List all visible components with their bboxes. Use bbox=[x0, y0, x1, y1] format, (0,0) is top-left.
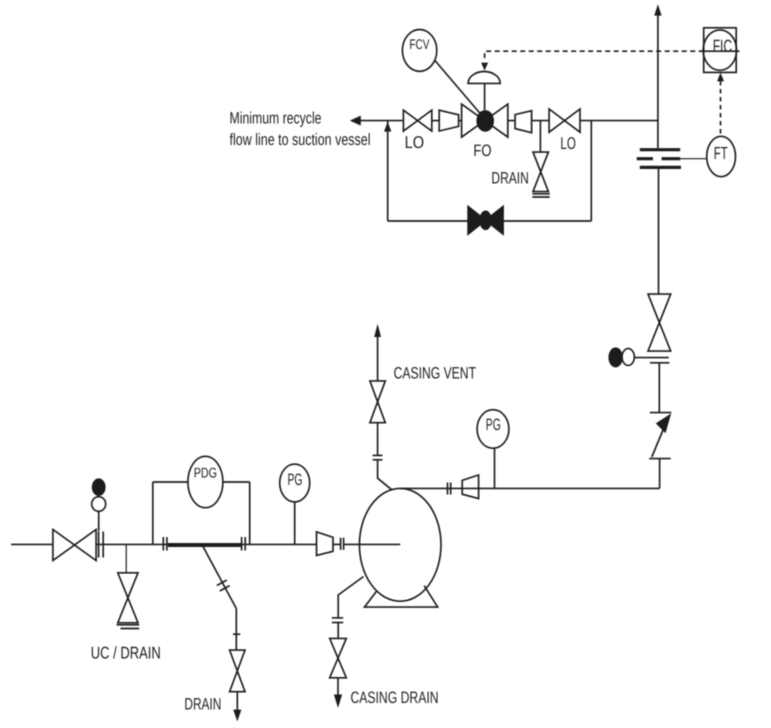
casing drain valve bbox=[330, 638, 347, 677]
valve LO left (gate) bbox=[403, 110, 431, 131]
gauge stem PG suction bbox=[294, 502, 296, 545]
reducer left of control valve bbox=[439, 110, 458, 131]
valve LO right (gate) bbox=[549, 109, 580, 132]
drain tail bbox=[236, 692, 238, 710]
bypass right riser bbox=[590, 121, 592, 221]
gauge stem PG discharge bbox=[494, 448, 496, 488]
casing vent valve bbox=[370, 381, 385, 423]
instrument balloon PDG bbox=[188, 456, 223, 507]
break slashes bbox=[217, 580, 227, 585]
blind flange lines under drain valve bbox=[532, 193, 549, 195]
reducer right of control valve bbox=[515, 111, 532, 133]
vertical gate valve on riser bbox=[648, 294, 671, 351]
leader line FCV to valve bbox=[435, 60, 484, 118]
riser segment bbox=[658, 363, 660, 413]
wire into pump bbox=[333, 543, 340, 545]
check valve top seat bbox=[650, 412, 672, 414]
check valve arrow head bbox=[656, 413, 671, 433]
orifice run thick segment bbox=[168, 543, 242, 547]
drain arrow bbox=[233, 710, 241, 722]
casing vent bend bbox=[378, 460, 392, 490]
orifice flange assembly bbox=[640, 148, 680, 151]
bypass up arrow bbox=[384, 122, 391, 132]
spectacle blind stem bbox=[98, 511, 100, 531]
control valve plug (filled ball) bbox=[476, 110, 494, 132]
svg-text:FT: FT bbox=[714, 143, 728, 163]
orifice run flange pairs bbox=[162, 537, 164, 551]
valve stem bbox=[484, 83, 486, 110]
instrument balloon FT bbox=[707, 136, 736, 176]
main suction line bbox=[11, 543, 53, 545]
spectacle blind filled circle bbox=[608, 347, 622, 367]
discharge line bbox=[401, 487, 660, 489]
drain branch line bbox=[539, 121, 541, 153]
spectacle blind open circle bbox=[92, 497, 106, 512]
riser upper segment bbox=[657, 15, 659, 148]
svg-text:FCV: FCV bbox=[409, 36, 430, 52]
small flange tick bbox=[233, 633, 240, 635]
wire orifice to FT bbox=[680, 158, 707, 160]
riser top arrow bbox=[654, 4, 661, 15]
svg-text:flow line to suction vessel: flow line to suction vessel bbox=[230, 131, 371, 149]
svg-text:LO: LO bbox=[405, 133, 425, 152]
riser below orifice bbox=[658, 169, 660, 294]
svg-text:CASING DRAIN: CASING DRAIN bbox=[351, 689, 439, 707]
wire recycle header line bbox=[358, 120, 403, 122]
casing drain tail bbox=[337, 678, 339, 695]
bypass globe valve normally closed (filled) bbox=[468, 206, 503, 234]
svg-text:DRAIN: DRAIN bbox=[184, 695, 221, 713]
svg-text:Minimum recycle: Minimum recycle bbox=[230, 110, 322, 128]
wire bbox=[508, 120, 515, 122]
drain drop bbox=[235, 609, 237, 651]
svg-text:PDG: PDG bbox=[194, 464, 217, 480]
svg-text:CASING VENT: CASING VENT bbox=[394, 364, 476, 382]
spectacle blind lines bbox=[635, 357, 669, 359]
casing drain flange pair bbox=[332, 617, 343, 619]
casing drain bend bbox=[338, 577, 363, 618]
instrument balloon PG discharge bbox=[477, 410, 509, 449]
discharge flange pair bbox=[447, 483, 449, 495]
dashed signal line FIC to valve bbox=[485, 51, 704, 61]
drain lateral from orifice run bbox=[203, 547, 236, 609]
svg-text:PG: PG bbox=[486, 416, 501, 434]
wire bbox=[459, 120, 462, 122]
riser to discharge bbox=[659, 459, 661, 489]
PDG tap right bbox=[249, 482, 251, 544]
check valve bottom seat bbox=[649, 458, 671, 460]
wire to riser bbox=[580, 120, 659, 122]
svg-text:UC / DRAIN: UC / DRAIN bbox=[91, 644, 161, 663]
drain globe valve (vertical) bbox=[533, 152, 548, 192]
spectacle blind open circle bbox=[622, 349, 634, 366]
vent arrow bbox=[374, 324, 381, 337]
vent flange pair bbox=[373, 454, 383, 456]
control valve body bbox=[462, 104, 508, 137]
drain valve bbox=[230, 650, 245, 692]
vent line upper bbox=[377, 336, 379, 381]
bypass left riser bbox=[387, 121, 389, 221]
instrument FIC circle bbox=[703, 30, 736, 70]
PDG top runs bbox=[153, 481, 188, 483]
discharge expander bbox=[462, 475, 478, 499]
pump casing bbox=[359, 488, 441, 601]
arrow to suction vessel bbox=[350, 116, 361, 126]
check valve flapper bbox=[652, 424, 666, 457]
suction line continues bbox=[96, 543, 316, 545]
casing drain line bbox=[337, 623, 339, 639]
signal arrow down onto actuator bbox=[481, 63, 488, 71]
svg-text:FO: FO bbox=[473, 142, 491, 160]
pump base bbox=[365, 586, 438, 607]
casing drain arrow bbox=[334, 695, 342, 709]
UC drain branch bbox=[125, 544, 127, 572]
svg-text:FIC: FIC bbox=[713, 36, 732, 56]
blind flange lines bbox=[117, 624, 140, 626]
diaphragm actuator dome bbox=[468, 72, 500, 84]
suction reducer bbox=[317, 532, 334, 556]
UC drain valve bbox=[118, 573, 138, 623]
bypass bottom run bbox=[388, 220, 592, 222]
instrument balloon FCV bbox=[402, 30, 436, 72]
PDG tap left bbox=[152, 482, 154, 544]
svg-text:DRAIN: DRAIN bbox=[491, 169, 528, 187]
vent line bbox=[377, 423, 379, 456]
svg-text:PG: PG bbox=[288, 471, 303, 489]
instrument balloon PG suction bbox=[280, 464, 310, 502]
dashed signal FT to FIC bbox=[720, 81, 722, 136]
spectacle blind filled circle bbox=[92, 478, 106, 496]
suction block valve (gate) bbox=[53, 530, 96, 561]
flange pair after valve bbox=[98, 532, 100, 558]
instrument FIC square bbox=[704, 28, 737, 73]
suction flange pair bbox=[340, 538, 342, 550]
wire bbox=[432, 120, 439, 122]
svg-text:LO: LO bbox=[560, 134, 576, 153]
FIC mid line bbox=[701, 50, 740, 52]
